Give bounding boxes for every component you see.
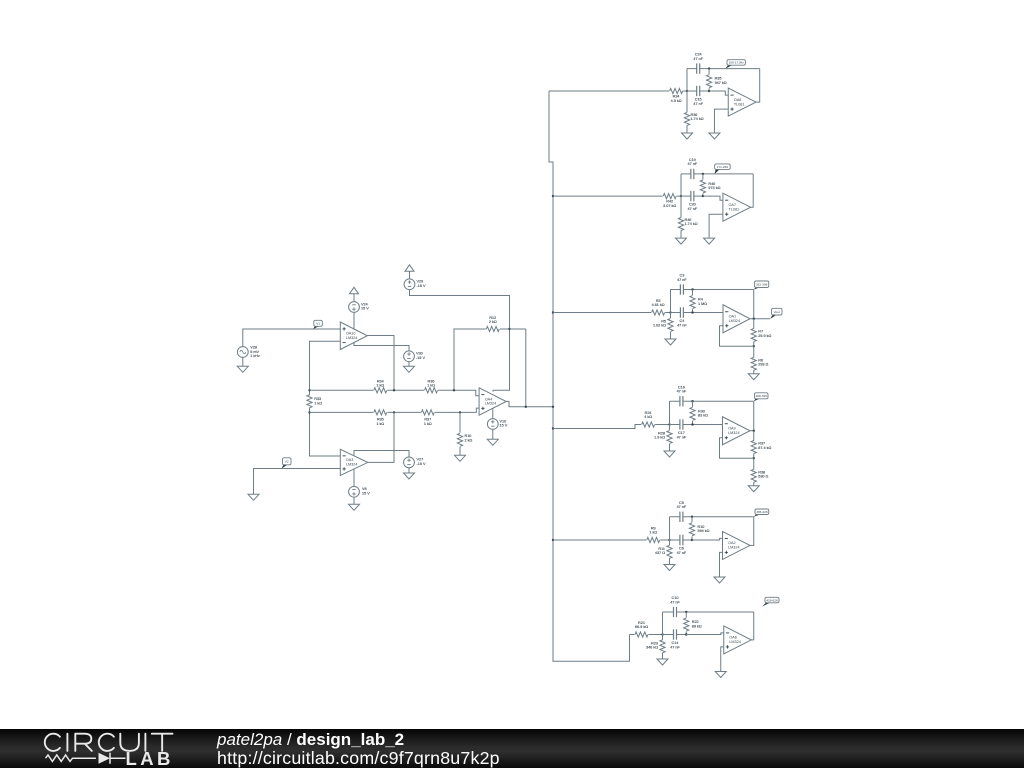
wire stage6 input (630, 634, 635, 636)
op-amp OA3 (340, 449, 368, 475)
svg-text:LM324: LM324 (346, 336, 357, 340)
ground below V28 (237, 357, 248, 372)
wire stage3 node A to cap (671, 312, 681, 314)
wire stage1 Rseries to node A (683, 90, 687, 92)
ground below V8 (349, 497, 360, 510)
capacitor C19 (47 nF) feedback (688, 158, 698, 179)
svg-text:OA4: OA4 (485, 397, 493, 401)
wire OA10 bottom edge to V30 (354, 343, 409, 351)
svg-text:TL081: TL081 (734, 102, 745, 106)
junction row1 R12 tap (453, 389, 455, 391)
svg-text:1 kΩ: 1 kΩ (427, 384, 435, 388)
svg-text:LM324: LM324 (729, 319, 740, 323)
node flag V1 (313, 320, 322, 329)
svg-text:47 nF: 47 nF (677, 323, 687, 327)
wire stage5 top line right (683, 516, 754, 518)
svg-text:25.9 kΩ: 25.9 kΩ (758, 334, 771, 338)
svg-text:1.02 kΩ: 1.02 kΩ (653, 324, 666, 328)
svg-text:OA6: OA6 (729, 636, 737, 640)
svg-text:293 Ω: 293 Ω (758, 363, 768, 367)
wire stage1 top line right (700, 68, 760, 70)
junction stage1 top node (708, 67, 710, 69)
svg-text:1.74 kΩ: 1.74 kΩ (685, 222, 698, 226)
resistor R9 (1 k&#937;) series (647, 526, 660, 542)
resistor R40 (973 k&#937;) feedback (700, 174, 720, 196)
resistor R12 (2 kOhm) feedback (454, 316, 510, 391)
resistor R30 (83 k&#937;) feedback (690, 401, 708, 424)
svg-text:428-628: 428-628 (766, 598, 778, 602)
wire stage5 node B to - input (692, 538, 723, 540)
node B stage5 (691, 539, 693, 541)
wire stage3 output (750, 290, 770, 319)
resistor R33 (1 kOhm) (307, 390, 322, 412)
svg-text:1.9 kΩ: 1.9 kΩ (654, 436, 665, 440)
svg-text:47 nF: 47 nF (677, 278, 687, 282)
resistor R21 (66.5 k&#937;) series (635, 621, 648, 637)
resistor R24 (4 k&#937;) series (642, 411, 655, 427)
svg-text:-15 V: -15 V (417, 284, 426, 288)
wire stage6 Rseries to node A (649, 634, 663, 636)
logo word CIRCUIT (hand-drawn thin strokes) (45, 734, 173, 751)
junction bus OA4 feed (552, 406, 554, 408)
flag stage1 band label (725, 60, 745, 69)
wire V24 to OA10 top edge (353, 312, 355, 328)
wire stage4 cap to node B to - input (683, 424, 722, 426)
ground below V2 wire (248, 494, 259, 500)
wire stage1 cap to node B (700, 90, 709, 92)
junction R12 right on V29 wire (508, 328, 510, 330)
wire stage6 cap to node B (677, 634, 687, 636)
wire stage3 top line right (684, 289, 754, 291)
svg-text:47 nF: 47 nF (670, 600, 680, 604)
junction stage4 divider node (753, 457, 755, 459)
capacitor C17 (47 nF) series (677, 419, 687, 439)
resistor R10 (594 k&#937;) feedback (689, 517, 709, 540)
junction bus stage2 tap (552, 195, 554, 197)
op-amp OA9 (LM324) (723, 417, 751, 445)
resistor R42 (3.07 k&#937;) series (663, 194, 676, 209)
footer bar (0, 729, 1024, 768)
wire row1 mid segment (387, 389, 424, 391)
svg-text:47 nF: 47 nF (677, 551, 687, 555)
node A stage5 (668, 539, 670, 541)
wire stage4 divider to + input (720, 438, 754, 459)
svg-text:LM324: LM324 (728, 546, 739, 550)
wire arrow to V29 (409, 271, 411, 279)
voltage source V27 (-15 V) (404, 457, 426, 468)
svg-text:1 kΩ: 1 kΩ (376, 422, 384, 426)
ground stage6 + input (715, 672, 726, 678)
wire V2 input to OA3 + input (254, 469, 341, 495)
wire stage2 cap to node B (694, 195, 703, 197)
wire stage1 node A to cap (687, 90, 697, 92)
ground below R10 (455, 455, 466, 461)
wire row1 to OA4 - input (438, 390, 479, 396)
power arrow above V29 (405, 265, 414, 272)
wire row1 left segment (310, 389, 374, 391)
voltage source V29 (-15 V) (404, 279, 426, 290)
wire row2 mid segment (387, 411, 421, 413)
svg-text:947 kΩ: 947 kΩ (715, 81, 727, 85)
svg-text:47 nF: 47 nF (693, 102, 703, 106)
wire stage1 output (756, 69, 760, 103)
svg-text:V2: V2 (285, 460, 289, 464)
svg-text:LM324: LM324 (728, 431, 739, 435)
ground stage2 below resistor (676, 238, 687, 244)
svg-text:106-171Hz: 106-171Hz (729, 61, 745, 65)
op-amp OA1 (LM324) (723, 305, 750, 333)
svg-text:47 nF: 47 nF (693, 57, 703, 61)
svg-text:346 kΩ: 346 kΩ (646, 646, 658, 650)
resistor R6 (293 &#937;) divider bottom (751, 346, 768, 374)
wire stage2 node A up (680, 174, 682, 196)
svg-text:15 V: 15 V (500, 424, 508, 428)
svg-text:530 Ω: 530 Ω (758, 475, 768, 479)
resistor R22 (89 k&#937;) feedback (684, 612, 702, 635)
resistor R37 (1 kOhm) (421, 410, 434, 426)
junction stage4 top node (691, 400, 693, 402)
svg-text:87.4 kΩ: 87.4 kΩ (758, 446, 771, 450)
junction feedback on OA4 output (525, 406, 527, 408)
op-amp OA6 (LM324) (724, 626, 752, 654)
voltage source V8 (15 V) (349, 469, 371, 497)
junction stage3 top node (691, 288, 693, 290)
wire stage3 input (553, 312, 651, 314)
svg-text:437 Ω: 437 Ω (655, 551, 665, 555)
ground stage1 + input (709, 133, 720, 139)
svg-text:-15 V: -15 V (416, 356, 425, 360)
ground below V10 (487, 429, 498, 445)
voltage source V30 (-15 V) (404, 351, 426, 362)
node B stage2 (702, 195, 704, 197)
svg-text:395-428: 395-428 (756, 510, 768, 514)
op-amp OA8 (TL081) (728, 88, 756, 116)
ground stage4 divider (748, 486, 759, 492)
wire stage5 + input to ground (720, 552, 723, 577)
wire stage4 output (750, 401, 754, 431)
svg-text:OA2: OA2 (728, 541, 736, 545)
node A stage3 (669, 311, 671, 313)
wire stage1 input (549, 90, 669, 92)
wire stage1 top line left (687, 68, 697, 70)
flag stage6 band label (762, 597, 779, 606)
node flag V2 (282, 458, 292, 469)
wire stage5 Rseries to node A (660, 539, 669, 541)
wire R12 junction to output (525, 329, 527, 407)
junction stage2 top node (702, 173, 704, 175)
junction bus stage5 tap (552, 539, 554, 541)
svg-text:594 kΩ: 594 kΩ (698, 529, 710, 533)
junction stage4 output node (753, 430, 755, 432)
ground below V27 (404, 468, 415, 479)
svg-text:973 kΩ: 973 kΩ (708, 186, 720, 190)
ground stage6 below resistor (657, 659, 668, 665)
ground stage3 divider (748, 374, 759, 380)
svg-text:15 V: 15 V (361, 307, 369, 311)
svg-text:1.74 kΩ: 1.74 kΩ (691, 117, 704, 121)
wire OA10 output down to row1 (367, 336, 394, 391)
wire stage6 top line left (663, 611, 674, 613)
junction row1 left (308, 389, 310, 391)
voltage source V24 (15 V) (349, 302, 370, 313)
wire stage5 top line left (670, 516, 680, 518)
resistor R23 (346 k&#937;) to ground (646, 635, 665, 660)
wire stage5 input (553, 539, 646, 541)
junction stage6 top node (685, 611, 687, 613)
capacitor C24 (47 nF) feedback (693, 53, 703, 74)
wire stage1 node B to - input (709, 91, 728, 95)
ground stage2 + input (704, 238, 715, 244)
wire stage6 output (751, 612, 754, 640)
resistor R34 (4.9 k&#937;) series (670, 88, 683, 103)
svg-text:LAB: LAB (126, 748, 174, 768)
node A stage6 (661, 633, 663, 635)
wire stage5 node A up (669, 517, 671, 540)
node A stage4 (668, 423, 670, 425)
capacitor C20 (47 nF) series (688, 191, 698, 211)
svg-text:171-262: 171-262 (717, 165, 729, 169)
flag stage2 band label (715, 164, 731, 174)
svg-text:2 kΩ: 2 kΩ (489, 320, 497, 324)
capacitor C3 (47 nF) feedback (677, 274, 687, 295)
power arrow above V24 (350, 287, 359, 294)
node B stage1 (708, 90, 710, 92)
op-amp OA4 (479, 388, 506, 415)
wire stage3 node A up (670, 290, 672, 313)
svg-text:OA7: OA7 (729, 203, 737, 207)
ground stage5 + input (714, 577, 725, 583)
wire OA10 - input to R33 top (310, 341, 341, 390)
wire stage2 node B to - input (703, 196, 723, 200)
svg-text:83 kΩ: 83 kΩ (698, 414, 708, 418)
wire stage4 Rseries to node A (655, 424, 669, 426)
voltage source V28 (sine input) (237, 346, 260, 359)
junction stage3 output node (753, 318, 755, 320)
wire stage4 node A up (669, 401, 671, 424)
capacitor C6 (47 nF) series (677, 535, 687, 555)
svg-text:LM324: LM324 (729, 640, 740, 644)
flag stage5 band label (754, 509, 769, 517)
junction R12 top (510, 328, 526, 330)
wire stage6 node A up (662, 612, 664, 635)
svg-text:1 kHz: 1 kHz (250, 354, 260, 358)
svg-text:LM324: LM324 (346, 463, 357, 467)
wire stage2 output (751, 174, 754, 207)
svg-text:1 kΩ: 1 kΩ (424, 422, 432, 426)
svg-text:89 kΩ: 89 kΩ (692, 624, 702, 628)
node B stage3 (691, 311, 693, 313)
resistor R46 (1.74 k&#937;) to ground (678, 196, 697, 238)
svg-text:TL081: TL081 (729, 207, 740, 211)
wire bus trunk (549, 91, 630, 661)
svg-text:4.9 kΩ: 4.9 kΩ (671, 99, 682, 103)
resistor R37 (87.4 k&#937;) divider top (751, 431, 771, 459)
junction OA10 output on row1 (393, 389, 395, 391)
wire stage3 divider to + input (720, 326, 754, 347)
node B stage6 (685, 633, 687, 635)
resistor R35 (1 kOhm) (374, 410, 387, 426)
wire stage2 Rseries to node A (677, 195, 681, 197)
op-amp OA2 (LM324) (723, 531, 751, 559)
wire R33 to OA3 - input (310, 412, 341, 456)
svg-text:47 nF: 47 nF (688, 207, 698, 211)
svg-text:15 V: 15 V (362, 491, 370, 495)
resistor R7 (25.9 k&#937;) divider top (751, 319, 771, 347)
svg-text:4.61 kΩ: 4.61 kΩ (652, 303, 665, 307)
resistor R35 (947 k&#937;) feedback (707, 69, 727, 91)
wire OA3 output up to row2 (368, 412, 394, 462)
capacitor C5 (47 nF) feedback (677, 501, 687, 522)
wire stage2 node A to cap (681, 195, 691, 197)
wire stage4 node A to cap (670, 424, 680, 426)
flag stage3 band label (754, 281, 769, 290)
wire stage6 top line right (677, 611, 754, 613)
wire OA3 top edge to V27 (354, 451, 409, 458)
wire stage6 node B to - input (686, 633, 724, 635)
svg-text:1 kΩ: 1 kΩ (314, 402, 322, 406)
resistor R5 (1.02 k&#937;) to ground (653, 313, 673, 340)
svg-text:OA10: OA10 (346, 332, 356, 336)
junction OA3 output on row2 (393, 411, 395, 413)
resistor R10 (2 kOhm) (457, 412, 472, 455)
svg-text:OA1: OA1 (729, 315, 737, 319)
resistor R38 (530 &#937;) divider bottom (751, 458, 768, 486)
wire V28 to OA10 + input (243, 329, 340, 347)
node A stage2 (680, 195, 682, 197)
wire stage3 cap to node B to - input (684, 312, 723, 314)
svg-text:47 nF: 47 nF (677, 390, 687, 394)
capacitor C10 (47 nF) feedback (670, 596, 680, 617)
voltage source V10 (15 V) (487, 408, 507, 429)
svg-text:4 kΩ: 4 kΩ (644, 415, 652, 419)
resistor R4 (1 M&#937;) feedback (690, 290, 707, 313)
junction bus stage4 tap (552, 427, 554, 429)
junction stage5 top node (691, 516, 693, 518)
resistor R11 (437 &#937;) to ground (655, 540, 672, 565)
svg-text:262-308: 262-308 (756, 282, 768, 286)
svg-text:47 nF: 47 nF (670, 645, 680, 649)
wire stage2 + input to ground (709, 214, 723, 238)
svg-text:OA9: OA9 (728, 427, 736, 431)
wire stage6 node A to cap (663, 634, 674, 636)
wire stage4 top line left (670, 400, 680, 402)
resistor R34 (1 kOhm) (374, 379, 387, 393)
svg-text:-15 V: -15 V (417, 462, 426, 466)
resistor R36 (1.74 k&#937;) to ground (684, 91, 703, 133)
op-amp OA10 (340, 322, 367, 350)
svg-text:1 MΩ: 1 MΩ (698, 302, 707, 306)
ground below V30 (404, 362, 415, 373)
resistor R3 (4.61 k&#937;) series (652, 299, 665, 315)
ground stage4 below resistor (664, 451, 675, 457)
wire stage5 node A to cap (670, 539, 680, 541)
resistor R36 (1 kOhm) (425, 379, 438, 393)
svg-text:1 kΩ: 1 kΩ (649, 531, 657, 535)
wire stage1 node A up (686, 69, 688, 91)
wire stage3 top line left (671, 289, 681, 291)
wire stage2 top line left (681, 173, 691, 175)
junction row2 left (308, 411, 310, 413)
wire stage4 input (553, 425, 641, 429)
ground stage3 below resistor (665, 339, 676, 345)
flag Vout (770, 308, 782, 319)
junction R10 tap on row2 (459, 411, 461, 413)
svg-text:OA3: OA3 (346, 458, 354, 462)
svg-text:LM324: LM324 (485, 402, 496, 406)
svg-text:OA8: OA8 (734, 98, 742, 102)
node B stage4 (691, 423, 693, 425)
svg-text:Vout: Vout (774, 310, 780, 314)
capacitor C14 (47 nF) series (670, 629, 680, 649)
wire stage2 input (553, 195, 663, 197)
svg-text:47 nF: 47 nF (677, 435, 687, 439)
CircuitLab logo (43, 731, 193, 768)
resistor R28 (1.9 k&#937;) to ground (654, 425, 672, 452)
wire row2 left segment (310, 411, 374, 413)
wire stage1 + input to ground (714, 109, 728, 133)
wire arrow to V24 (353, 294, 355, 302)
node A stage1 (686, 90, 688, 92)
svg-text:47 nF: 47 nF (677, 505, 687, 509)
svg-text:1 kΩ: 1 kΩ (376, 384, 384, 388)
wire stage5 output (750, 517, 754, 546)
svg-text:47 nF: 47 nF (688, 162, 698, 166)
capacitor C15 (47 nF) series (693, 86, 703, 106)
wire stage6 + input to ground (721, 647, 724, 672)
ground stage5 below resistor (664, 565, 675, 571)
wire stage5 cap to node B (683, 539, 692, 541)
flag stage4 band label (754, 393, 768, 401)
wire OA4 output to bus (506, 401, 553, 406)
svg-text:2 kΩ: 2 kΩ (465, 438, 473, 442)
svg-text:308-395: 308-395 (756, 394, 768, 398)
svg-text:V1: V1 (316, 322, 320, 326)
wire stage3 Rseries to node A (665, 312, 670, 314)
wire stage4 top line right (683, 400, 754, 402)
svg-text:3.07 kΩ: 3.07 kΩ (663, 204, 676, 208)
logo resistor zigzag and diode (46, 753, 126, 764)
wire row2 to OA4 + input (435, 408, 479, 412)
wire stage2 top line right (694, 173, 753, 175)
svg-text:66.5 kΩ: 66.5 kΩ (635, 625, 648, 629)
capacitor C4 (47 nF) series (677, 307, 687, 327)
wire V29 to OA4 top edge (410, 290, 510, 392)
ground stage1 below resistor (682, 133, 693, 139)
op-amp OA7 (TL081) (723, 193, 751, 221)
capacitor C16 (47 nF) feedback (677, 385, 687, 406)
junction stage3 divider node (753, 345, 755, 347)
diode triangle (99, 753, 111, 764)
junction bus stage3 tap (552, 311, 554, 313)
